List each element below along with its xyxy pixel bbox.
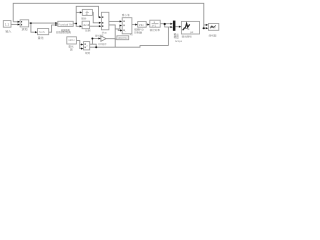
wire gain output down to bottom rail (106, 39, 115, 48)
svg-text:因: 因 (70, 48, 73, 52)
svg-text:重心法: 重心法 (122, 13, 130, 17)
svg-text:du/dt: du/dt (83, 23, 89, 27)
svg-text:Mux: Mux (102, 32, 108, 35)
mux1 port marks (102, 16, 103, 18)
svg-text:PID: PID (139, 23, 144, 27)
B1 source block (67, 37, 77, 44)
wire branch to fuzzy in3 (118, 29, 120, 31)
XY graph icon (210, 25, 216, 28)
wire riser down to F2 feed (76, 24, 80, 27)
wire zigzag branch to fuzzy in2 (115, 26, 120, 29)
svg-text:输入: 输入 (5, 30, 11, 34)
arrowhead into sum lower (18, 23, 20, 25)
arrowhead into fuzzy in2 (120, 24, 122, 26)
PID block (138, 22, 147, 28)
wire PID output to TF (146, 24, 148, 26)
svg-text:dt: dt (86, 13, 88, 16)
svg-text:1khz: 1khz (68, 39, 75, 42)
scope block (181, 21, 199, 34)
svg-text:模糊控制: 模糊控制 (118, 36, 128, 40)
arrowhead into mux1 in2 (99, 22, 101, 24)
arrowhead into fuzzy in1 (120, 20, 122, 22)
wire B1 output down to B2 (76, 41, 81, 49)
arrowhead into mux1 in3 (99, 25, 101, 27)
wire source to sum lower input (11, 23, 19, 25)
wire TF output to mux2 in1 (160, 23, 171, 25)
B2 interior port marks (85, 43, 86, 45)
wire B2 output riser to gain triangle (90, 39, 99, 45)
svg-text:量化因子: 量化因子 (95, 34, 105, 37)
arrowhead into F1 (80, 11, 82, 13)
arrowhead into XY in2 (206, 27, 208, 29)
arrowhead into scope (179, 26, 181, 28)
arrowhead into sum upper (18, 21, 20, 23)
wire feedback top line (13, 3, 204, 28)
scope waveform icon (183, 23, 190, 30)
wire sum output to block4 (29, 22, 57, 24)
junction dot bottom rail (95, 46, 97, 48)
svg-text:规则: 规则 (85, 51, 91, 55)
gain block F2 (82, 21, 90, 29)
svg-text:Fu: Fu (130, 33, 133, 36)
fuzzy controller block (122, 18, 132, 34)
wire riser up to y6 rail into mux in1 (76, 6, 100, 23)
arrowhead into XY in1 (206, 24, 208, 26)
wire B2 output drop to bottom rail (92, 44, 96, 47)
XY graph block (208, 24, 218, 31)
junction dot block4 output branch (75, 23, 77, 25)
wire junction drop to mux2 in2 (165, 24, 172, 27)
lookup block4 (58, 21, 73, 26)
junction dot sum output branch (30, 22, 32, 24)
mux1 block (101, 12, 109, 30)
wire block4 output (73, 23, 76, 25)
svg-text:微分: 微分 (81, 17, 87, 21)
wire stub into F1 input (76, 11, 80, 13)
wire bottom rail riser to mux2 in2 (167, 27, 169, 46)
fuzzy interior port dots (124, 21, 125, 23)
arrowhead into mux2 in2 (170, 26, 172, 28)
arrowhead into TF (147, 24, 149, 26)
wire block3 output riser to block4 lower input (49, 25, 57, 32)
wire bottom rail (90, 46, 168, 48)
wire top line drop into XY block in1 (204, 24, 207, 26)
svg-text:输出曲线: 输出曲线 (182, 34, 193, 38)
wire branch to B2 upper input (80, 44, 82, 46)
arrowhead into PID (135, 24, 137, 26)
wire branch down to quantizer block3 (31, 23, 36, 32)
wire feedback into sum upper input (13, 21, 18, 23)
svg-text:Fuzzical Tbl: Fuzzical Tbl (59, 23, 73, 26)
B2 lookup block (84, 42, 90, 50)
sum interior port marks (21, 21, 22, 23)
arrowhead into F2 (80, 25, 82, 27)
wire mux1 out1 to fuzzy in1 (109, 20, 120, 22)
svg-text:比例因子: 比例因子 (98, 43, 108, 46)
arrowhead into block3 (35, 31, 37, 33)
svg-text:控制查询表: 控制查询表 (56, 31, 71, 35)
arrowhead into fuzzy in3 (120, 29, 122, 31)
arrowhead into gain triangle (98, 37, 100, 39)
arrowhead into B2 lower (81, 48, 83, 50)
TF fraction bar (152, 22, 159, 25)
junction dot on gain riser (91, 38, 93, 40)
sum block (20, 20, 29, 27)
svg-text:控制器: 控制器 (134, 30, 142, 34)
svg-text:曲线图: 曲线图 (209, 34, 217, 38)
wire stub into XY block in2 (202, 27, 206, 29)
XY graph icon dark mark (211, 26, 213, 28)
wire mux2 output to scope (175, 26, 180, 28)
annotation box below fuzzy (117, 36, 129, 40)
transfer function block (150, 20, 160, 27)
arrowhead into block4 upper (55, 22, 57, 24)
svg-text:--: -- (125, 30, 127, 33)
source block input (3, 21, 11, 28)
svg-text:被控对象: 被控对象 (150, 28, 161, 32)
wire F1 output down into mux in2 (93, 12, 100, 22)
svg-text:5x5: 5x5 (39, 30, 45, 34)
arrowhead into B2 upper (81, 43, 83, 45)
arrowhead into block4 lower (55, 24, 57, 26)
wire F2 output into mux in3 (90, 25, 100, 27)
derivative block F1 (82, 9, 92, 15)
svg-text:求和: 求和 (22, 28, 28, 32)
svg-text:Scope: Scope (175, 40, 183, 43)
arrowhead into mux2 in1 (170, 23, 172, 25)
junction dot TF output (164, 23, 166, 25)
svg-text:比例: 比例 (85, 29, 91, 33)
wire mux1 out2 zigzag (109, 25, 117, 39)
junction dot near XY feed (203, 27, 205, 29)
wire fuzzy output to PID (132, 24, 136, 26)
svg-text:量化: 量化 (38, 36, 44, 40)
svg-text:s+1: s+1 (152, 25, 157, 28)
svg-text:1.1: 1.1 (5, 22, 10, 26)
arrowhead into mux1 in1 (99, 16, 101, 18)
gain triangle (101, 36, 106, 41)
quantizer block3 (38, 29, 49, 35)
mux2 bar (173, 21, 176, 31)
